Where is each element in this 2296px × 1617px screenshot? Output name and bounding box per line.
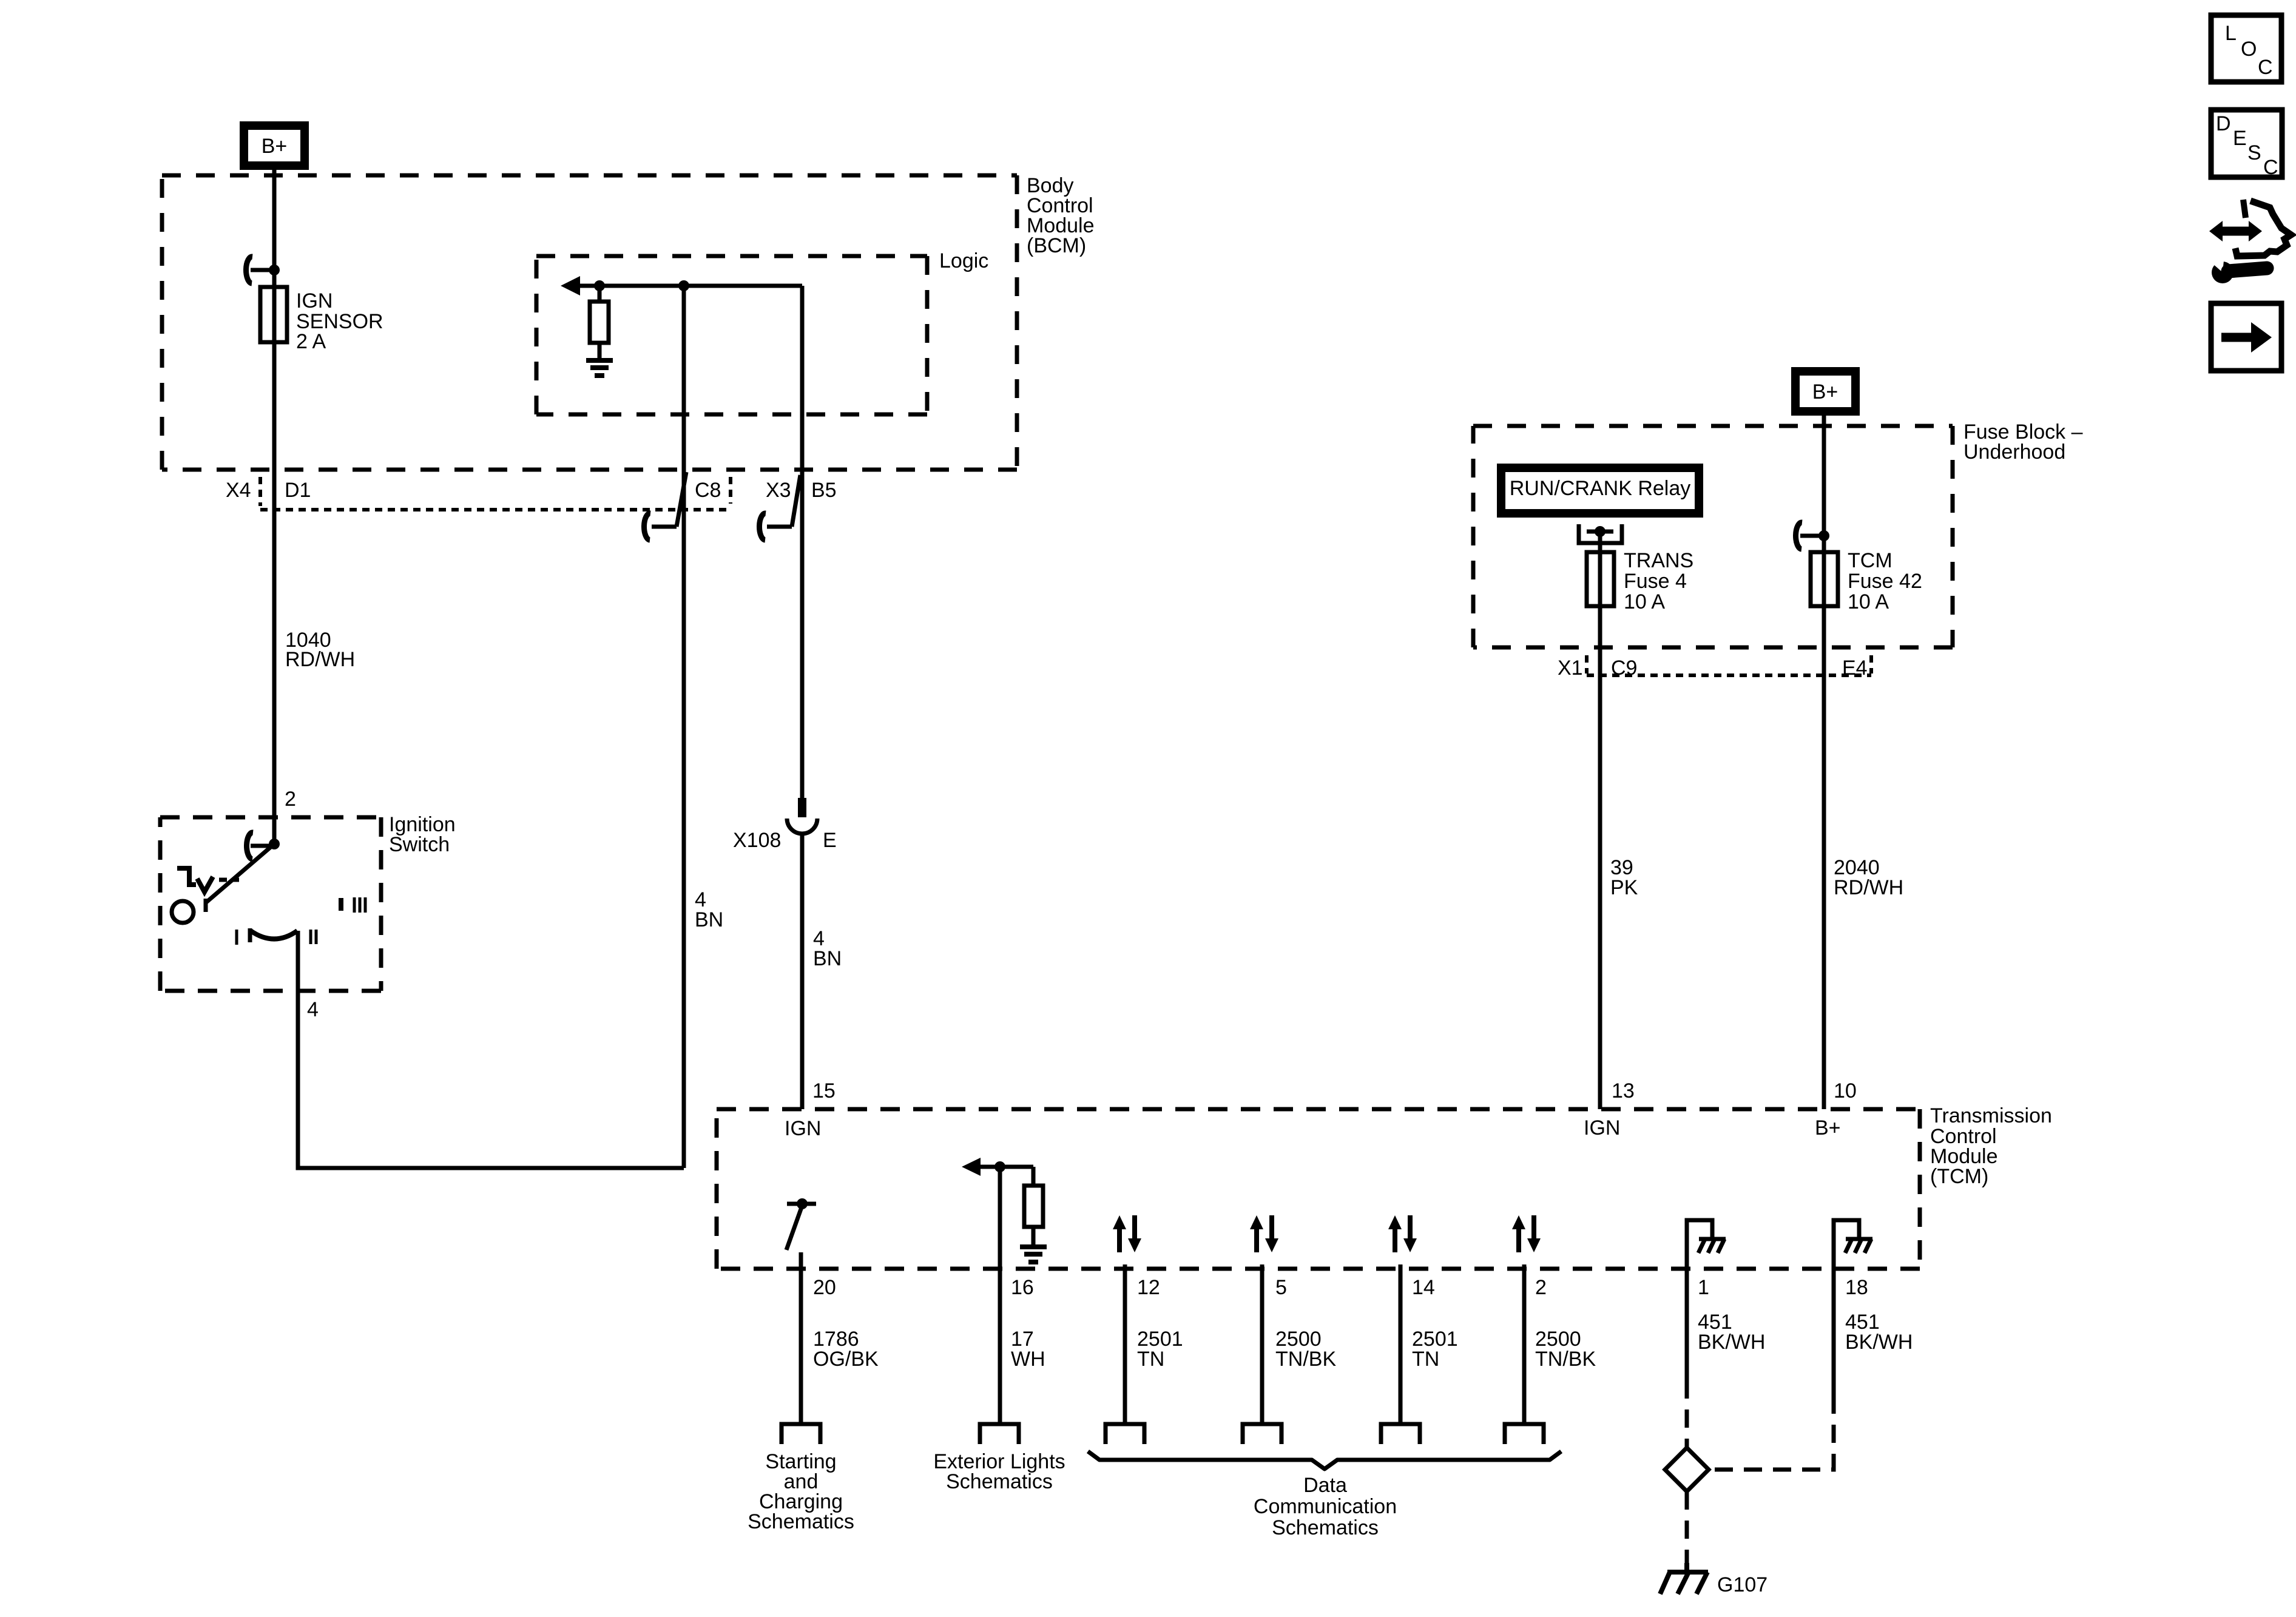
svg-text:Fuse 42: Fuse 42 xyxy=(1848,570,1922,593)
svg-text:BN: BN xyxy=(695,908,723,931)
icon box LOC xyxy=(2211,15,2281,82)
svg-text:TRANS: TRANS xyxy=(1624,549,1693,572)
module box Fuse Block - Underhood (dashed) xyxy=(1473,426,1953,647)
wire label 451 BK/WH (pin 18) xyxy=(1845,1311,1913,1354)
terminal (pin 14 off-page) xyxy=(1381,1424,1420,1444)
svg-text:10 A: 10 A xyxy=(1848,590,1889,613)
chassis ground inside TCM (pin 1) xyxy=(1687,1220,1726,1269)
wire logic bus horizontal xyxy=(570,284,802,288)
svg-text:TN: TN xyxy=(1137,1348,1164,1371)
fuse IGN SENSOR 2 A xyxy=(260,287,287,342)
svg-text:10: 10 xyxy=(1834,1079,1857,1102)
svg-text:C8: C8 xyxy=(695,479,721,502)
connector clip at IGN SENSOR xyxy=(246,257,274,283)
wire TCM pin 5 to terminal (2500 TN/BK) xyxy=(1260,1264,1264,1423)
svg-text:Data: Data xyxy=(1303,1474,1347,1497)
fuse TRANS Fuse 4 10 A xyxy=(1587,552,1614,606)
icon box DESC xyxy=(2211,110,2282,179)
svg-text:20: 20 xyxy=(813,1276,836,1299)
svg-text:Fuse 4: Fuse 4 xyxy=(1624,570,1687,593)
icon box forward arrow xyxy=(2211,303,2281,371)
svg-text:TN/BK: TN/BK xyxy=(1275,1348,1336,1371)
svg-text:PK: PK xyxy=(1610,876,1638,899)
svg-text:IGN: IGN xyxy=(296,289,333,312)
node dot TCM fuse clip xyxy=(1818,530,1829,541)
svg-text:C: C xyxy=(2258,56,2273,79)
svg-text:G107: G107 xyxy=(1717,1573,1768,1596)
label Data Communication Schematics xyxy=(1254,1474,1397,1539)
label Transmission Control Module (TCM) xyxy=(1930,1104,2052,1188)
svg-text:2 A: 2 A xyxy=(296,330,326,353)
wire TCM pin 1 dashed to splice xyxy=(1685,1380,1689,1449)
svg-text:X4: X4 xyxy=(226,479,251,502)
wire B+ to TCM fuse (2040 RD/WH) xyxy=(1822,411,1826,1109)
svg-text:BK/WH: BK/WH xyxy=(1698,1331,1765,1354)
wire label 451 BK/WH (pin 1) xyxy=(1698,1311,1765,1354)
svg-text:13: 13 xyxy=(1612,1079,1635,1102)
svg-text:E: E xyxy=(823,829,837,852)
resistor (BCM pull-up) xyxy=(590,286,609,359)
svg-text:(BCM): (BCM) xyxy=(1027,234,1086,257)
wire label 2500 TN/BK (pin 5) xyxy=(1275,1328,1336,1371)
bidirectional data arrows (pin 2) xyxy=(1512,1215,1541,1252)
accessory position mark xyxy=(177,868,239,892)
wire TCM pin 12 to terminal (2501 TN) xyxy=(1123,1264,1127,1423)
inline connector X108 xyxy=(787,798,817,834)
connector strip X4 / D1 ... C8 (dotted) xyxy=(260,477,731,510)
arrow (signal into TCM) pointing left xyxy=(962,1158,1033,1176)
terminal (pin 20 off-page) xyxy=(782,1424,820,1444)
relay box RUN/CRANK Relay xyxy=(1501,468,1699,513)
svg-text:C: C xyxy=(2263,156,2278,179)
node junction dot ignition switch input xyxy=(269,839,280,849)
svg-text:Communication: Communication xyxy=(1254,1495,1397,1518)
position detent arc I-II xyxy=(250,928,297,942)
position mark I III xyxy=(341,897,365,913)
arrow (signal to BCM logic) pointing left xyxy=(561,276,580,295)
wire relay to TRANS fuse and TCM pin 13 (39 PK) xyxy=(1598,532,1602,1109)
svg-text:Schematics: Schematics xyxy=(1272,1516,1379,1539)
svg-text:Logic: Logic xyxy=(939,249,988,272)
fuse TCM Fuse 42 10 A xyxy=(1811,552,1838,606)
node junction dot at IGN SENSOR clip xyxy=(269,265,280,275)
wire label 1040 RD/WH xyxy=(285,629,355,671)
wire TCM pin 14 to terminal (2501 TN) xyxy=(1399,1264,1403,1423)
svg-text:B5: B5 xyxy=(811,479,837,502)
svg-text:(TCM): (TCM) xyxy=(1930,1165,1988,1188)
wire label 4 BN (B5 wire) xyxy=(813,927,842,970)
svg-text:14: 14 xyxy=(1412,1276,1435,1299)
svg-text:5: 5 xyxy=(1275,1276,1287,1299)
connector clip at TCM fuse xyxy=(1796,522,1824,549)
switch common terminal circle xyxy=(172,901,194,923)
wire BCM B5 output down (4 BN) xyxy=(800,286,805,804)
resistor (TCM pull-up) xyxy=(1024,1167,1043,1245)
switch inside TCM (pin 20) xyxy=(786,1198,816,1250)
svg-text:E4: E4 xyxy=(1842,657,1868,680)
splice diamond S-connection xyxy=(1665,1448,1709,1491)
svg-text:D: D xyxy=(2216,112,2231,135)
svg-text:X3: X3 xyxy=(766,479,791,502)
label Fuse Block - Underhood xyxy=(1963,420,2083,464)
svg-text:IGN: IGN xyxy=(1584,1116,1620,1139)
wire TCM pin 1 (451 BK/WH) solid part xyxy=(1685,1269,1689,1380)
svg-text:L: L xyxy=(2225,22,2237,45)
svg-text:Schematics: Schematics xyxy=(748,1510,854,1533)
node dot TCM pin 16 branch xyxy=(994,1161,1005,1172)
wire BCM C8 output down xyxy=(682,286,686,1168)
terminal (pin 12 off-page) xyxy=(1106,1424,1144,1444)
svg-text:RUN/CRANK Relay: RUN/CRANK Relay xyxy=(1510,477,1691,500)
node dot relay output xyxy=(1595,526,1606,537)
label TCM Fuse 42 10 A xyxy=(1848,549,1922,613)
svg-text:12: 12 xyxy=(1137,1276,1160,1299)
svg-text:10 A: 10 A xyxy=(1624,590,1665,613)
svg-text:2: 2 xyxy=(285,788,296,811)
svg-text:Switch: Switch xyxy=(389,833,450,856)
switch pivot tick xyxy=(204,899,208,912)
wire label 2501 TN (pin 14) xyxy=(1412,1328,1458,1371)
svg-text:Transmission: Transmission xyxy=(1930,1104,2052,1127)
svg-text:1: 1 xyxy=(1698,1276,1709,1299)
connector strip X1 / C9 ... E4 (dotted) xyxy=(1587,655,1871,675)
position mark I (left of arc) xyxy=(235,930,238,945)
ground (TCM earth) xyxy=(1020,1247,1047,1262)
power symbol B+ (left) xyxy=(244,126,305,166)
svg-text:IGN: IGN xyxy=(785,1117,821,1140)
icon connector repair (double arrow, connector outline, wrench) xyxy=(2207,200,2291,283)
svg-text:B+: B+ xyxy=(1812,380,1838,403)
bidirectional data arrows (pin 5) xyxy=(1250,1215,1278,1252)
svg-text:4: 4 xyxy=(307,998,319,1021)
svg-text:X108: X108 xyxy=(733,829,781,852)
chassis ground inside TCM (pin 18) xyxy=(1834,1220,1872,1269)
wire label 4 BN (C8 wire) xyxy=(695,888,723,931)
node dot at resistor branch xyxy=(594,280,605,291)
position mark II (right of arc) xyxy=(311,930,316,944)
wire TCM pin 18 (451 BK/WH) solid part xyxy=(1832,1269,1836,1396)
node dot at C8 branch xyxy=(678,280,689,291)
svg-text:C9: C9 xyxy=(1611,657,1637,680)
wire label 39 PK xyxy=(1610,856,1638,899)
wire label 2500 TN/BK (pin 2) xyxy=(1535,1328,1596,1371)
svg-text:TN/BK: TN/BK xyxy=(1535,1348,1596,1371)
wire from B+ to ignition switch (1040 RD/WH) xyxy=(272,170,277,844)
svg-text:WH: WH xyxy=(1011,1348,1045,1371)
brace under data pins xyxy=(1088,1451,1561,1469)
wire label 2040 RD/WH xyxy=(1834,856,1903,899)
wire splice to G107 dashed xyxy=(1685,1491,1689,1569)
label Ignition Switch xyxy=(389,813,456,856)
svg-text:OG/BK: OG/BK xyxy=(813,1348,879,1371)
svg-text:E: E xyxy=(2233,127,2247,150)
label Starting and Charging Schematics xyxy=(748,1450,854,1533)
connector clip at ignition switch xyxy=(246,832,274,859)
terminal (pin 16 off-page) xyxy=(980,1424,1019,1444)
svg-text:S: S xyxy=(2247,141,2261,164)
svg-text:16: 16 xyxy=(1011,1276,1034,1299)
connector clip X3/B5 xyxy=(759,475,800,540)
label Body Control Module (BCM) xyxy=(1027,174,1095,257)
logic box (dashed) inside BCM xyxy=(536,256,927,414)
wire pin 18 dashed to splice xyxy=(1711,1396,1834,1470)
ground (BCM logic earth) xyxy=(586,360,613,376)
ground G107 chassis symbol xyxy=(1660,1563,1708,1594)
svg-text:B+: B+ xyxy=(262,135,288,158)
power symbol B+ (right) xyxy=(1795,371,1855,411)
svg-text:Schematics: Schematics xyxy=(946,1470,1053,1493)
svg-text:BK/WH: BK/WH xyxy=(1845,1331,1913,1354)
wire TCM pin 20 to terminal (1786 OG/BK) xyxy=(799,1252,803,1423)
switch blade (ignition switch) xyxy=(206,844,274,902)
svg-text:D1: D1 xyxy=(285,479,311,502)
label IGN SENSOR 2 A xyxy=(296,289,383,353)
svg-text:2: 2 xyxy=(1535,1276,1547,1299)
svg-text:18: 18 xyxy=(1845,1276,1868,1299)
wire label 2501 TN (pin 12) xyxy=(1137,1328,1183,1371)
wire X108 to TCM pin 15 (4 BN) xyxy=(800,832,805,1109)
module box Transmission Control Module (TCM), dashed xyxy=(717,1109,1920,1269)
svg-text:X1: X1 xyxy=(1558,657,1583,680)
wire label 1786 OG/BK xyxy=(813,1328,879,1371)
bidirectional data arrows (pin 12) xyxy=(1113,1215,1141,1252)
svg-text:RD/WH: RD/WH xyxy=(1834,876,1903,899)
svg-text:TN: TN xyxy=(1412,1348,1439,1371)
wire ignition switch pin 4 to BCM C8 wire xyxy=(298,931,684,1168)
svg-text:O: O xyxy=(2241,38,2257,61)
svg-text:BN: BN xyxy=(813,947,842,970)
connector clip C8 xyxy=(644,472,686,540)
wire label 17 WH xyxy=(1011,1328,1045,1371)
label TRANS Fuse 4 10 A xyxy=(1624,549,1693,613)
label Exterior Lights Schematics xyxy=(933,1450,1065,1493)
svg-text:15: 15 xyxy=(812,1079,836,1102)
terminal (pin 5 off-page) xyxy=(1243,1424,1281,1444)
svg-text:Underhood: Underhood xyxy=(1963,441,2065,464)
bidirectional data arrows (pin 14) xyxy=(1388,1215,1417,1252)
svg-text:TCM: TCM xyxy=(1848,549,1893,572)
wire TCM pin 2 to terminal (2500 TN/BK) xyxy=(1522,1264,1527,1423)
svg-text:B+: B+ xyxy=(1815,1116,1841,1139)
svg-text:RD/WH: RD/WH xyxy=(285,648,355,671)
module box Ignition Switch (dashed) xyxy=(160,817,381,991)
wire TCM pin 16 to terminal (17 WH) xyxy=(998,1167,1002,1423)
relay output bracket xyxy=(1579,524,1622,543)
module box Body Control Module (BCM), dashed xyxy=(162,175,1017,470)
terminal (pin 2 off-page) xyxy=(1505,1424,1544,1444)
